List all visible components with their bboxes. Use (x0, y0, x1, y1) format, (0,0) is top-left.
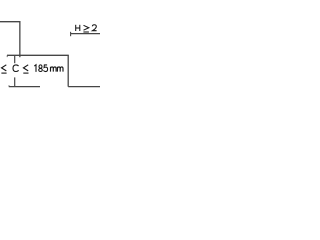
glyph C of label (13, 65, 19, 72)
C dimension line upper part (14, 55, 16, 63)
step profile: lower ground right (68, 86, 100, 88)
ground extension line left (9, 86, 40, 88)
tick at left end of ground extension (8, 85, 10, 86)
glyph 5 of label (44, 65, 48, 72)
glyph m no.2 of label mm (57, 67, 63, 72)
glyph H of label H >= 2 (76, 25, 80, 31)
tick at left end of H dimension line (70, 32, 72, 36)
glyph <= no.1 of label <= C <= 185 mm (1, 65, 6, 73)
step profile: mid tread with left extension (7, 54, 69, 56)
glyph >= of label H >= 2 (83, 25, 89, 32)
step profile: top tread (0, 21, 21, 23)
background (0, 0, 100, 100)
H dimension line (71, 33, 100, 35)
tick at left end of mid tread extension (6, 55, 8, 57)
glyph <= no.2 of label (23, 65, 28, 73)
glyph m no.1 of label mm (51, 67, 57, 72)
step profile: riser 1 (19, 22, 21, 58)
glyph 2 of label H >= 2 (92, 25, 96, 31)
glyph 8 of label (39, 65, 43, 72)
glyph 1 of label (34, 65, 36, 72)
step profile: riser 2 (67, 55, 69, 86)
C dimension line lower part (14, 77, 16, 86)
